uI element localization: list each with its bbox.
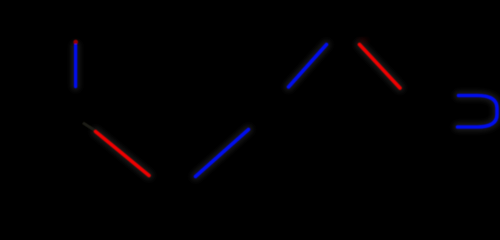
node smudge above R2 start (faint dark red) bbox=[358, 39, 368, 43]
wire blue curved arrow hook bbox=[458, 96, 498, 128]
node A (dark red dot above blue vertical bond) bbox=[73, 40, 78, 45]
wire blue vertical bond B1 bbox=[74, 46, 77, 87]
wire red diagonal bond R1 bbox=[96, 132, 150, 176]
wire red diagonal bond R2 bbox=[360, 45, 401, 89]
wire blue diagonal bond B2 lower part bbox=[196, 130, 249, 177]
wire faint dark lead-in above R1 start bbox=[84, 124, 95, 131]
wire blue diagonal bond B2 upper part bbox=[289, 45, 327, 88]
wire artifact halo (faint gray compression glow around all strokes) bbox=[76, 45, 497, 177]
